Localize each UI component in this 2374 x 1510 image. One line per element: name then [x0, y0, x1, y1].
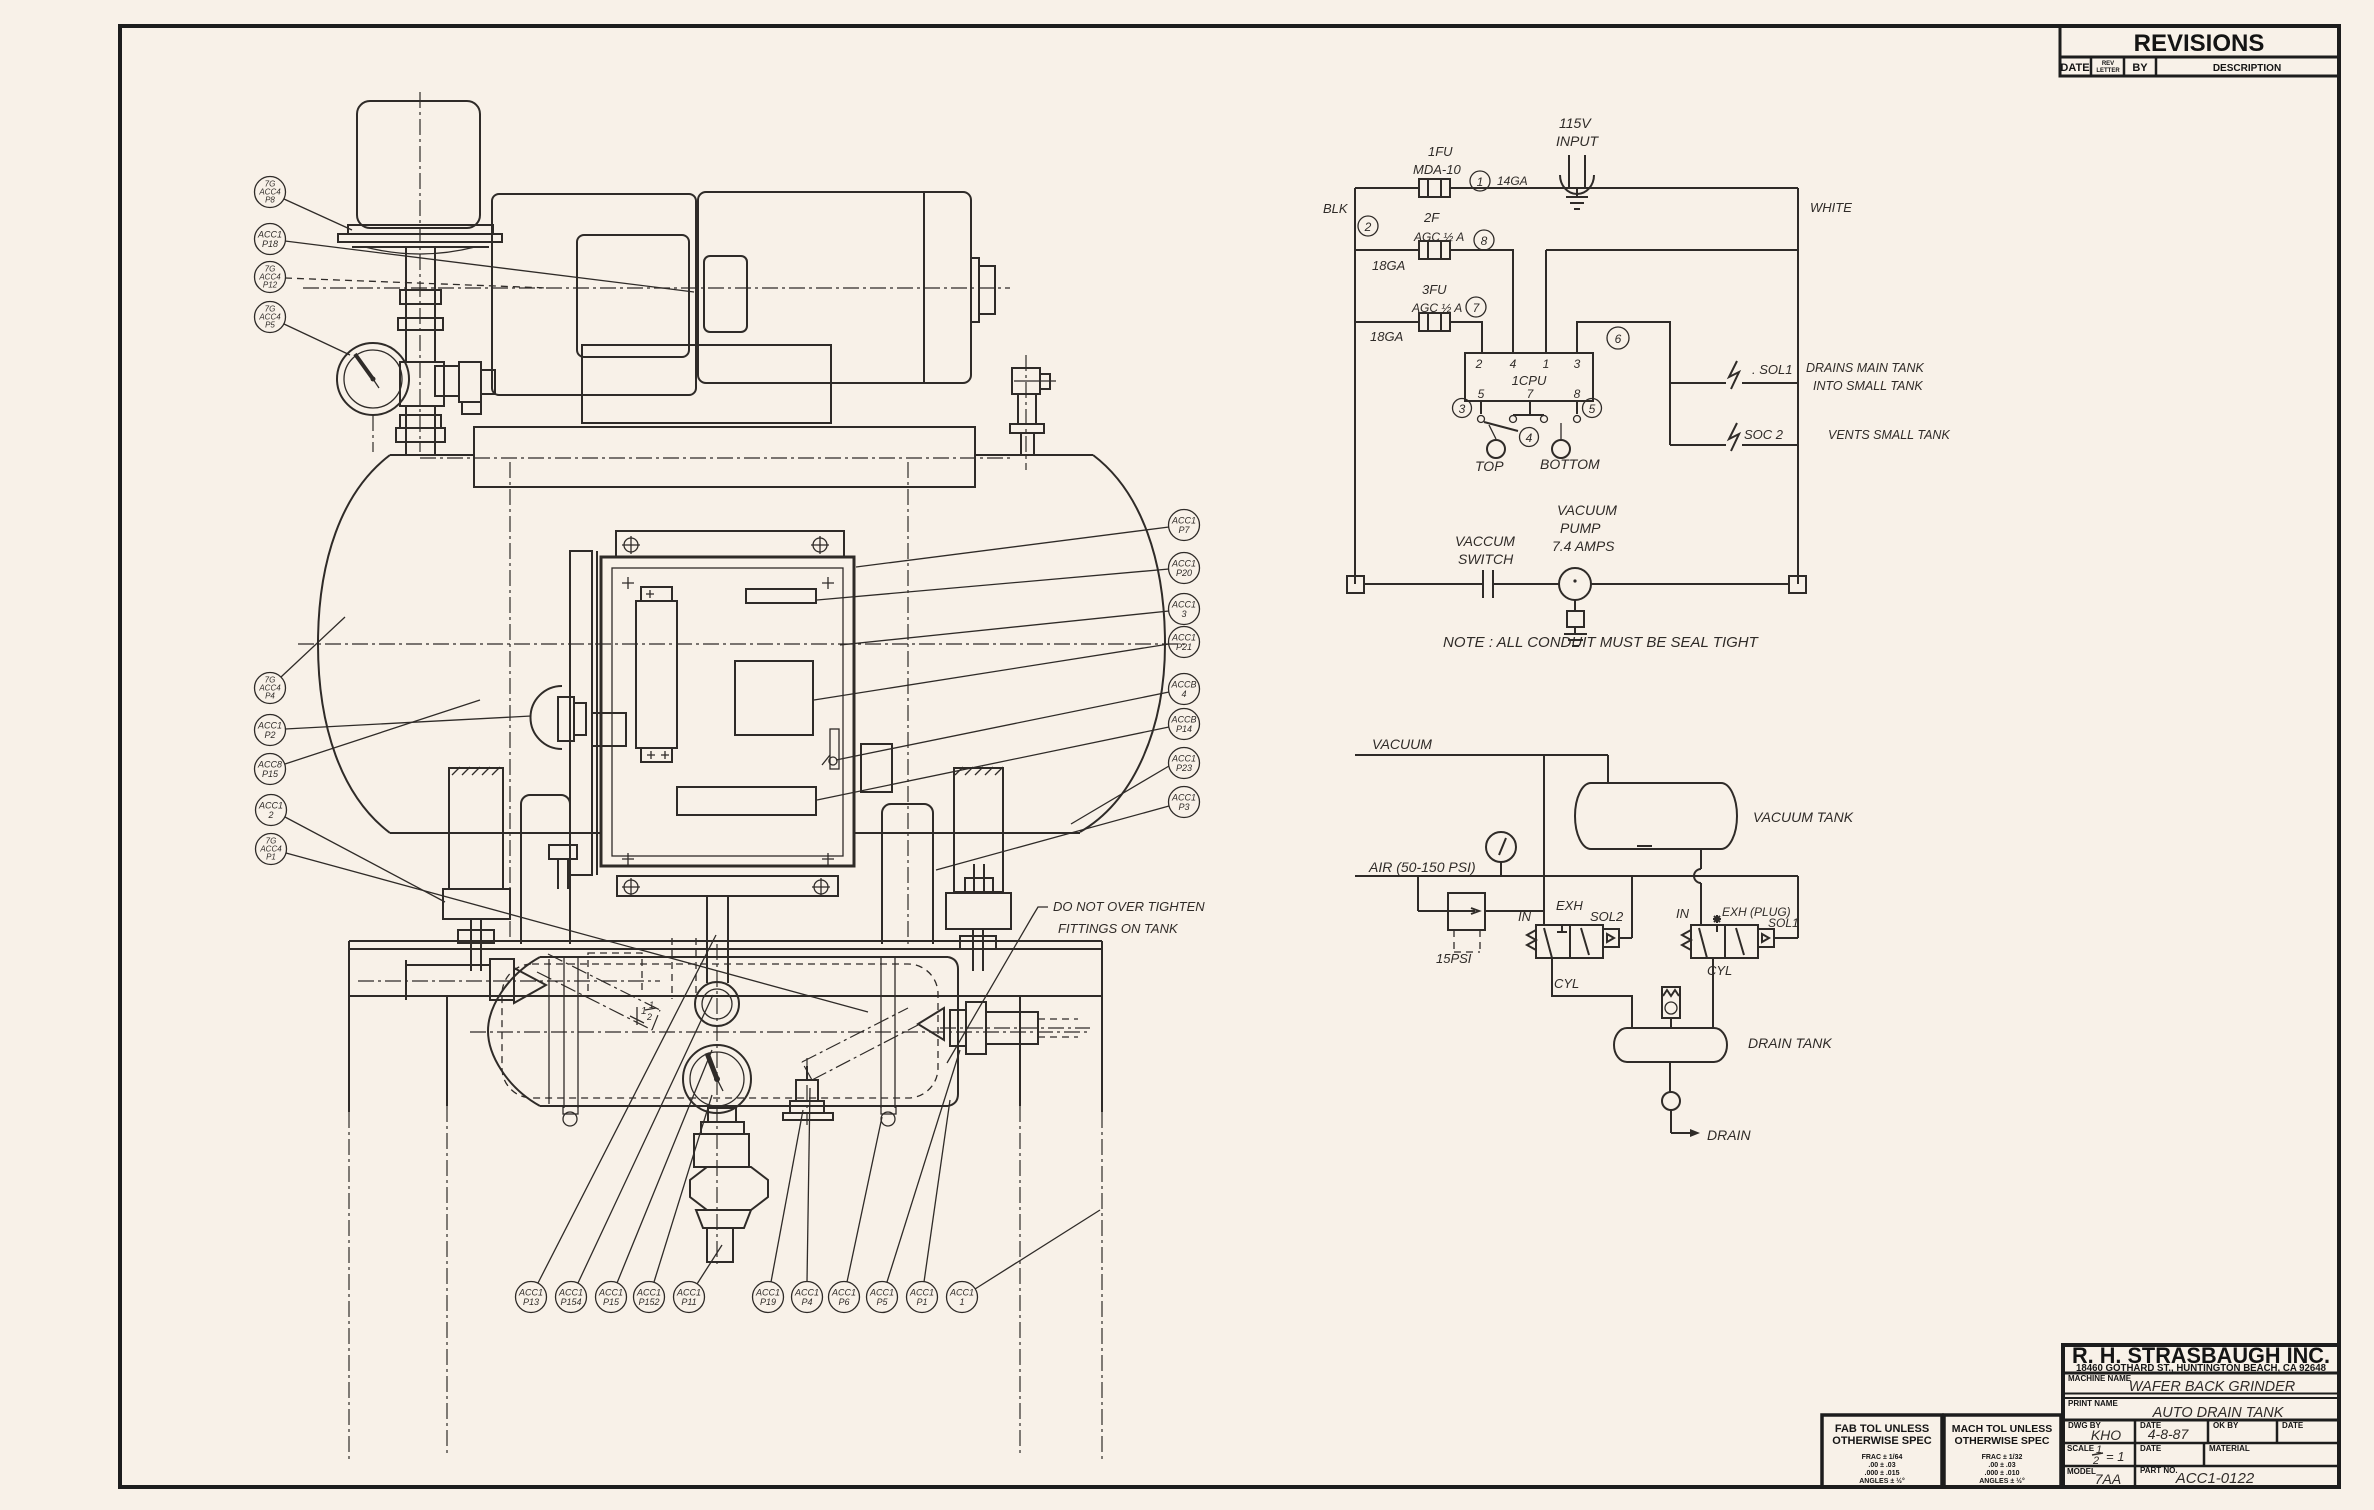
- svg-text:P1: P1: [266, 853, 276, 862]
- drain tank right fitting: [940, 1002, 1090, 1054]
- electrical panel box: [601, 557, 854, 866]
- svg-text:14GA: 14GA: [1497, 174, 1528, 188]
- svg-text:WHITE: WHITE: [1810, 200, 1852, 215]
- svg-text:4: 4: [1181, 689, 1186, 699]
- svg-text:ACC1: ACC1: [636, 1288, 661, 1298]
- svg-text:P3: P3: [1178, 802, 1189, 812]
- svg-text:P5: P5: [265, 321, 275, 330]
- solenoid SOL2 wire: [1670, 423, 1950, 451]
- svg-text:MACH TOL UNLESS: MACH TOL UNLESS: [1952, 1423, 2053, 1435]
- svg-text:ACC8: ACC8: [257, 760, 282, 770]
- svg-text:8: 8: [1574, 387, 1581, 401]
- AIR supply line: [1355, 859, 1798, 876]
- svg-text:SOL2: SOL2: [1590, 909, 1624, 924]
- side component: [822, 729, 839, 769]
- svg-text:P4: P4: [265, 692, 275, 701]
- stem pipe: [398, 247, 443, 362]
- balloon ACC1 P19: [753, 1110, 804, 1313]
- svg-text:ACC1: ACC1: [1171, 516, 1196, 526]
- valve SOL1: [1676, 876, 1799, 958]
- motor shaft: [971, 258, 995, 322]
- svg-text:ANGLES ± ½°: ANGLES ± ½°: [1979, 1477, 2025, 1485]
- node 8: [1474, 230, 1494, 250]
- balloon 7G ACC4 P4: [255, 617, 346, 704]
- svg-text:1: 1: [641, 1006, 647, 1017]
- svg-text:NOTE : ALL CONDUIT MUST BE: NOTE : ALL CONDUIT MUST BE SEAL TIGHT: [1443, 634, 1760, 651]
- door latch: [861, 744, 892, 792]
- diagonal pipe left: [537, 954, 660, 1030]
- svg-text:ACC1: ACC1: [1171, 793, 1196, 803]
- saddle leg outer right: [954, 767, 1003, 892]
- wire pin3 to solenoid bus: [1577, 322, 1670, 445]
- valve SOL1 CYL line: [1707, 958, 1732, 1028]
- svg-text:P14: P14: [1176, 724, 1192, 734]
- selector switch contacts: [1478, 401, 1581, 439]
- svg-text:ANGLES ± ½°: ANGLES ± ½°: [1859, 1477, 1905, 1485]
- svg-text:ACC1: ACC1: [794, 1288, 819, 1298]
- air gauge: [1486, 832, 1516, 876]
- motor body: [698, 192, 971, 383]
- balloon ACC1 P152: [634, 1095, 713, 1313]
- svg-text:P1: P1: [916, 1297, 927, 1307]
- svg-text:2: 2: [1475, 357, 1483, 371]
- check valve: [1662, 987, 1680, 1028]
- svg-text:. SOL1: . SOL1: [1752, 362, 1792, 377]
- motor centerline: [303, 287, 1010, 289]
- svg-text:INTO SMALL TANK: INTO SMALL TANK: [1813, 379, 1923, 393]
- panel corner marks: [622, 577, 834, 865]
- mounting base plate: [420, 427, 1012, 487]
- elbow centerline: [1014, 355, 1056, 470]
- svg-text:REVISIONS: REVISIONS: [2134, 30, 2265, 57]
- svg-text:P19: P19: [760, 1297, 776, 1307]
- bottom motor wire: [1347, 576, 1806, 593]
- balloon 7G ACC4 P12: [255, 262, 549, 293]
- door hinge box: [592, 713, 626, 746]
- svg-text:1: 1: [1477, 175, 1484, 189]
- balloon ACC1 P2: [255, 715, 532, 746]
- node 3: [1453, 399, 1472, 418]
- svg-text:.000 ± .010: .000 ± .010: [1985, 1470, 2020, 1477]
- node 7: [1466, 297, 1486, 317]
- regulator 15PSI: [1418, 876, 1544, 966]
- control box center: [735, 661, 813, 735]
- svg-text:2: 2: [1364, 220, 1372, 234]
- stand top band: [349, 941, 1102, 996]
- svg-text:KHO: KHO: [2091, 1427, 2121, 1443]
- svg-text:2: 2: [267, 810, 273, 820]
- valve SOL2 CYL line: [1552, 958, 1632, 1028]
- svg-text:ACC1: ACC1: [1171, 559, 1196, 569]
- svg-text:ACC1: ACC1: [257, 721, 282, 731]
- right elbow fitting: [1010, 368, 1050, 455]
- drain column centerline: [717, 944, 807, 1268]
- balloon ACC1 P11: [674, 1245, 723, 1313]
- svg-text:IN: IN: [1676, 906, 1690, 921]
- svg-text:ACC1: ACC1: [676, 1288, 701, 1298]
- door edge plate: [570, 551, 597, 875]
- drain valve small: [783, 1066, 833, 1120]
- revisions block: [2060, 26, 2339, 76]
- fraction label: [641, 1000, 656, 1022]
- filter cup: [357, 101, 480, 228]
- svg-text:P20: P20: [1176, 568, 1192, 578]
- pressure regulator: [690, 1108, 768, 1262]
- svg-text:8: 8: [1481, 234, 1488, 248]
- valve SOL2: [1518, 876, 1632, 958]
- svg-text:1: 1: [959, 1297, 964, 1307]
- svg-text:VACUUM: VACUUM: [1372, 736, 1432, 752]
- svg-text:P15: P15: [262, 769, 279, 779]
- node 6: [1607, 327, 1629, 349]
- svg-text:FAB TOL UNLESS: FAB TOL UNLESS: [1835, 1423, 1929, 1435]
- svg-text:CYL: CYL: [1554, 976, 1579, 991]
- balloon ACC1 P7: [856, 510, 1200, 568]
- svg-text:ACC1: ACC1: [257, 230, 282, 240]
- balloon ACC1 P4: [792, 1088, 823, 1313]
- vacuum switch capacitor symbol: [1455, 533, 1515, 598]
- svg-text:DATE: DATE: [2060, 62, 2089, 74]
- svg-text:FRAC ± 1/64: FRAC ± 1/64: [1862, 1454, 1903, 1461]
- fuse 2F AGC 1/2A: [1413, 210, 1464, 259]
- svg-text:4: 4: [1526, 431, 1533, 445]
- balloon ACC8 P15: [255, 700, 481, 785]
- svg-text:OTHERWISE SPEC: OTHERWISE SPEC: [1955, 1435, 2050, 1447]
- svg-text:VACUUM: VACUUM: [1557, 502, 1617, 518]
- svg-text:OK BY: OK BY: [2213, 1421, 2239, 1430]
- svg-text:ACC1: ACC1: [558, 1288, 583, 1298]
- tank bolt left: [549, 845, 577, 889]
- svg-text:PRINT NAME: PRINT NAME: [2068, 1399, 2118, 1408]
- svg-text:SWITCH: SWITCH: [1458, 551, 1514, 567]
- stem lower collars: [396, 406, 445, 455]
- svg-text:P6: P6: [838, 1297, 849, 1307]
- svg-text:CYL: CYL: [1707, 963, 1732, 978]
- svg-text:DRAIN: DRAIN: [1707, 1127, 1751, 1143]
- solenoid SOL1 wire: [1670, 361, 1924, 393]
- filter cup centerline: [419, 92, 421, 452]
- balloon ACC1 P6: [829, 1117, 883, 1313]
- svg-text:ACC1: ACC1: [258, 801, 283, 811]
- svg-text:ACC1: ACC1: [755, 1288, 780, 1298]
- svg-text:P8: P8: [265, 196, 275, 205]
- svg-text:REV: REV: [2102, 61, 2114, 67]
- 115V input plug: [1556, 115, 1599, 209]
- svg-text:7AA: 7AA: [2095, 1471, 2121, 1487]
- svg-text:OTHERWISE SPEC: OTHERWISE SPEC: [1832, 1435, 1931, 1447]
- pneumatic: VACUUM supply line: [1355, 736, 1608, 925]
- svg-text:SOC 2: SOC 2: [1744, 427, 1784, 442]
- balloon ACC1 P13: [516, 935, 717, 1313]
- drain tank: [1614, 1028, 1832, 1062]
- left foot: [443, 889, 510, 971]
- sight glass: [695, 897, 739, 1026]
- balloon ACC1 P23: [1071, 748, 1200, 825]
- svg-text:ACCB: ACCB: [1170, 715, 1196, 725]
- hidden band details: [588, 938, 696, 999]
- svg-text:ACC1: ACC1: [598, 1288, 623, 1298]
- svg-text:DRAINS MAIN TANK: DRAINS MAIN TANK: [1806, 361, 1924, 375]
- svg-text:ACC1: ACC1: [869, 1288, 894, 1298]
- tank bolt right: [965, 864, 993, 893]
- svg-text:VACUUM TANK: VACUUM TANK: [1753, 809, 1854, 825]
- svg-text:4-8-87: 4-8-87: [2148, 1426, 2190, 1442]
- svg-text:DRAIN TANK: DRAIN TANK: [1748, 1035, 1832, 1051]
- tank plug left: [563, 1106, 578, 1126]
- svg-text:MACHINE NAME: MACHINE NAME: [2068, 1374, 2132, 1383]
- svg-text:PART NO.: PART NO.: [2140, 1466, 2178, 1475]
- svg-text:.00 ± .03: .00 ± .03: [1988, 1462, 2015, 1469]
- svg-text:P12: P12: [263, 281, 278, 290]
- main tank shell: [298, 455, 1185, 833]
- balloon 7G ACC4 P1: [256, 834, 869, 1013]
- inlet pipe left: [358, 959, 660, 1003]
- svg-text:DO NOT OVER TIGHTEN: DO NOT OVER TIGHTEN: [1053, 899, 1205, 914]
- balloon ACC1 P15: [596, 1050, 713, 1313]
- svg-text:VACCUM: VACCUM: [1455, 533, 1515, 549]
- svg-text:P23: P23: [1176, 763, 1192, 773]
- saddle leg inner left: [521, 795, 570, 944]
- tank bottom pipe to SOL1 valve: [1694, 849, 1701, 925]
- svg-text:EXH: EXH: [1556, 898, 1583, 913]
- node 4: [1520, 428, 1539, 447]
- tank strap right: [881, 957, 895, 1108]
- relay component: [636, 587, 677, 762]
- svg-text:18GA: 18GA: [1372, 258, 1405, 273]
- svg-text:2: 2: [646, 1012, 652, 1022]
- relay 1CPU: [1465, 353, 1593, 401]
- node 2: [1358, 216, 1378, 236]
- terminal strip top: [746, 589, 816, 603]
- balloon ACCB P14: [817, 709, 1200, 801]
- svg-text:15PSI: 15PSI: [1436, 951, 1472, 966]
- balloon 7G ACC4 P5: [255, 302, 351, 356]
- svg-text:1CPU: 1CPU: [1512, 373, 1547, 388]
- node 5: [1583, 399, 1602, 418]
- BOTTOM contact: [1540, 440, 1600, 472]
- svg-text:SOL1: SOL1: [1768, 916, 1799, 930]
- balloon ACC1 P1: [907, 1100, 951, 1313]
- svg-text:BLK: BLK: [1323, 201, 1349, 216]
- balloon ACC1 P21: [814, 627, 1200, 701]
- svg-text:3: 3: [1459, 402, 1466, 416]
- svg-text:.00 ± .03: .00 ± .03: [1868, 1462, 1895, 1469]
- svg-text:1: 1: [1543, 357, 1550, 371]
- vacuum tank: [1575, 783, 1854, 849]
- drain tank shell: [470, 957, 1088, 1106]
- svg-text:VENTS SMALL TANK: VENTS SMALL TANK: [1828, 428, 1950, 442]
- svg-text:IN: IN: [1518, 909, 1532, 924]
- svg-text:6: 6: [1615, 332, 1622, 346]
- svg-text:= 1: = 1: [2106, 1449, 2124, 1464]
- svg-text:P5: P5: [876, 1297, 888, 1307]
- wire fuse3 row: [1355, 322, 1482, 353]
- svg-text:3: 3: [1574, 357, 1581, 371]
- svg-text:P154: P154: [560, 1297, 581, 1307]
- door handle: [531, 686, 587, 749]
- pressure gauge: [337, 343, 409, 452]
- terminal strip bottom: [677, 787, 816, 815]
- balloon ACC1 P20: [817, 553, 1200, 601]
- svg-text:P2: P2: [264, 730, 275, 740]
- fab tolerance block: [1822, 1415, 1942, 1487]
- svg-text:LETTER: LETTER: [2096, 68, 2120, 74]
- vacuum pump motor: [1552, 502, 1617, 646]
- pump base bracket: [582, 345, 831, 423]
- svg-text:ACC1: ACC1: [949, 1288, 974, 1298]
- fuse 3FU AGC 1/2A: [1411, 282, 1462, 331]
- wire BLK left vertical: [1323, 188, 1355, 584]
- wire WHITE right vertical: [1798, 188, 1852, 584]
- balloon 7G ACC4 P8: [255, 177, 353, 231]
- svg-text:ACC1: ACC1: [518, 1288, 543, 1298]
- svg-text:PUMP: PUMP: [1560, 520, 1601, 536]
- svg-text:MATERIAL: MATERIAL: [2209, 1444, 2250, 1453]
- svg-text:DATE: DATE: [2282, 1421, 2304, 1430]
- svg-text:5: 5: [1589, 402, 1596, 416]
- svg-text:MODEL: MODEL: [2067, 1467, 2096, 1476]
- drain gauge: [683, 1045, 751, 1113]
- svg-text:7.4 AMPS: 7.4 AMPS: [1552, 538, 1615, 554]
- svg-text:P13: P13: [523, 1297, 539, 1307]
- svg-text:P4: P4: [801, 1297, 812, 1307]
- svg-text:AIR (50-150 PSI): AIR (50-150 PSI): [1368, 859, 1476, 875]
- svg-text:SCALE: SCALE: [2067, 1444, 2095, 1453]
- svg-text:DATE: DATE: [2140, 1444, 2162, 1453]
- svg-text:P21: P21: [1176, 642, 1192, 652]
- svg-text:5: 5: [1478, 387, 1485, 401]
- title block: [2063, 1343, 2339, 1487]
- saddle leg inner right: [882, 804, 933, 944]
- svg-text:ACC1: ACC1: [1171, 633, 1196, 643]
- balloon ACC1 1: [947, 1210, 1101, 1313]
- note text: [1443, 634, 1760, 651]
- svg-text:ACC1: ACC1: [1171, 754, 1196, 764]
- svg-text:ACCB: ACCB: [1170, 680, 1196, 690]
- balloon ACC1 3: [840, 594, 1200, 646]
- balloon ACC1 P3: [936, 787, 1200, 871]
- svg-text:BOTTOM: BOTTOM: [1540, 456, 1600, 472]
- svg-text:ACC1: ACC1: [909, 1288, 934, 1298]
- svg-text:3: 3: [1181, 609, 1186, 619]
- svg-text:ACC1: ACC1: [1171, 600, 1196, 610]
- svg-text:FITTINGS ON TANK: FITTINGS ON TANK: [1058, 921, 1179, 936]
- stem tee valve: [400, 362, 495, 414]
- balloon ACC1 P154: [556, 995, 714, 1313]
- svg-text:1FU: 1FU: [1428, 144, 1453, 159]
- drain line with ball: [1662, 1062, 1751, 1143]
- filter flange: [338, 225, 502, 254]
- svg-text:P152: P152: [638, 1297, 659, 1307]
- note do not overtighten: [947, 899, 1205, 1063]
- balloon ACC1 P18: [255, 224, 695, 293]
- svg-text:FRAC ± 1/32: FRAC ± 1/32: [1982, 1454, 2023, 1461]
- svg-text:3FU: 3FU: [1422, 282, 1447, 297]
- stand legs: [349, 941, 1102, 1460]
- saddle leg outer left: [449, 767, 503, 889]
- svg-text:MDA-10: MDA-10: [1413, 162, 1461, 177]
- saddle centerlines: [510, 462, 908, 948]
- wire fuse2 row: [1355, 250, 1798, 353]
- svg-text:18GA: 18GA: [1370, 329, 1403, 344]
- TOP contact: [1475, 440, 1505, 474]
- svg-text:P11: P11: [681, 1297, 696, 1307]
- svg-text:BY: BY: [2132, 62, 2148, 74]
- balloon ACC1 2: [256, 795, 446, 903]
- tank strap left: [564, 957, 578, 1108]
- pump housing: [492, 194, 696, 395]
- svg-text:P15: P15: [603, 1297, 620, 1307]
- svg-text:2F: 2F: [1423, 210, 1440, 225]
- diagonal pipe right: [802, 1008, 944, 1080]
- balloon ACC1 P5: [867, 1050, 961, 1313]
- svg-text:115V: 115V: [1559, 115, 1592, 131]
- balloon ACCB 4: [836, 674, 1200, 761]
- motor junction box: [704, 256, 747, 332]
- svg-text:INPUT: INPUT: [1556, 133, 1599, 149]
- mach tolerance block: [1944, 1415, 2061, 1487]
- svg-text:.000 ± .015: .000 ± .015: [1865, 1470, 1900, 1477]
- electrical schematic: top wire L1: [1355, 187, 1798, 189]
- node 1: [1470, 171, 1528, 191]
- svg-text:P7: P7: [1178, 525, 1190, 535]
- right foot: [946, 893, 1011, 971]
- fuse 1FU MDA-10: [1413, 144, 1461, 197]
- tank plug right: [881, 1106, 896, 1126]
- drain tank liner hidden: [502, 964, 938, 1098]
- svg-text:ACC1: ACC1: [831, 1288, 856, 1298]
- svg-text:P18: P18: [262, 239, 278, 249]
- svg-text:DESCRIPTION: DESCRIPTION: [2213, 63, 2281, 74]
- svg-text:4: 4: [1510, 357, 1517, 371]
- svg-text:ACC1-0122: ACC1-0122: [2175, 1470, 2255, 1487]
- svg-text:TOP: TOP: [1475, 458, 1504, 474]
- panel mounting plate: [616, 531, 844, 896]
